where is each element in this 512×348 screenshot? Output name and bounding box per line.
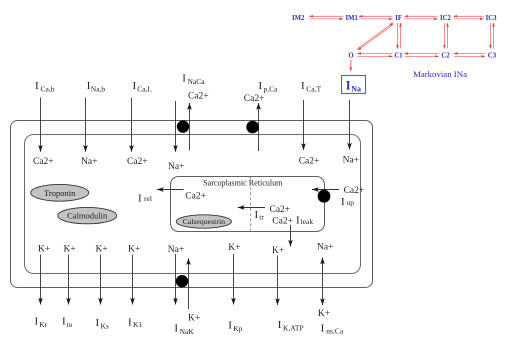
wire IKr arrow <box>40 255 42 305</box>
svg-text:IM1: IM1 <box>346 15 359 22</box>
svg-text:K+: K+ <box>64 245 76 255</box>
label IKr <box>35 316 48 330</box>
wire IK1 arrow <box>132 255 134 305</box>
label IK,ATP <box>278 319 304 333</box>
label Ito <box>62 316 73 330</box>
svg-text:K1: K1 <box>133 320 142 329</box>
svg-text:I: I <box>174 323 178 335</box>
svg-text:K+: K+ <box>38 245 50 255</box>
wire Ins,Ca double arrow <box>322 258 324 281</box>
label Ileak <box>296 214 313 226</box>
exchanger NaCa pump circle <box>177 120 189 132</box>
svg-text:NaCa: NaCa <box>188 77 206 86</box>
label IK1 <box>128 317 142 330</box>
svg-text:K+: K+ <box>272 246 284 256</box>
wire SR divider dashed line <box>250 177 252 231</box>
svg-text:K+: K+ <box>96 245 108 255</box>
label IKs <box>96 317 109 331</box>
wire INa,b arrow <box>85 98 87 152</box>
svg-text:C2: C2 <box>441 52 450 59</box>
svg-text:Na: Na <box>351 85 361 94</box>
svg-text:Calsequestrin: Calsequestrin <box>183 217 226 226</box>
wire O-C1 double arrow <box>358 54 393 57</box>
wire Ileak down arrow <box>290 225 292 247</box>
inner cell membrane <box>25 135 361 274</box>
wire IM1-IF double arrow <box>359 16 393 19</box>
svg-text:I: I <box>301 80 305 92</box>
wire ICa,L arrow <box>131 98 133 152</box>
svg-text:Ca2+: Ca2+ <box>188 92 209 102</box>
pump p,Ca circle <box>246 121 259 134</box>
svg-text:Ca2+: Ca2+ <box>244 94 265 104</box>
svg-text:K+: K+ <box>188 314 200 324</box>
svg-text:Ca,L: Ca,L <box>137 85 152 94</box>
svg-text:Ca2+: Ca2+ <box>33 157 54 167</box>
svg-text:Ca,T: Ca,T <box>306 85 321 94</box>
svg-text:IC2: IC2 <box>440 15 452 22</box>
wire ICa,T arrow <box>303 100 305 150</box>
svg-text:I: I <box>133 80 137 92</box>
label Iup <box>341 196 354 208</box>
wire Ip,Ca up arrow <box>258 103 260 151</box>
label Itr <box>255 209 265 222</box>
svg-text:Ca2+: Ca2+ <box>127 157 148 167</box>
svg-text:K+: K+ <box>128 245 140 255</box>
svg-text:Na+: Na+ <box>81 157 97 167</box>
svg-text:C3: C3 <box>488 52 497 59</box>
svg-text:I: I <box>255 209 259 221</box>
svg-text:I: I <box>341 196 345 208</box>
label ICa,b <box>35 80 55 94</box>
svg-text:ns,Ca: ns,Ca <box>326 327 344 336</box>
outer cell membrane <box>11 121 373 288</box>
label Irel <box>138 193 152 205</box>
svg-text:I: I <box>278 319 282 331</box>
svg-text:I: I <box>228 320 232 332</box>
svg-text:Troponin: Troponin <box>44 188 76 198</box>
wire IM2-IM1 double arrow <box>310 16 344 19</box>
svg-text:I: I <box>138 193 142 205</box>
svg-text:Calmodulin: Calmodulin <box>67 211 108 221</box>
buffer Troponin <box>31 184 89 201</box>
wire INaK down arrow <box>175 254 177 305</box>
wire C2-C3 double arrow <box>454 54 485 57</box>
svg-text:Na+: Na+ <box>168 245 184 255</box>
pump SR Ca circle <box>318 190 331 203</box>
wire Itr arrow <box>238 207 265 209</box>
wire C1-C2 double arrow <box>405 54 439 57</box>
svg-text:Markovian INa: Markovian INa <box>413 69 467 79</box>
label INaCa <box>182 72 205 86</box>
wire IKp arrow <box>233 254 235 305</box>
label ICa,T <box>301 80 322 94</box>
svg-text:I: I <box>128 317 132 329</box>
svg-text:p,Ca: p,Ca <box>264 85 279 94</box>
svg-text:Kr: Kr <box>39 320 47 329</box>
wire Iup arrow into SR <box>312 189 339 191</box>
wire IC2-C2 vertical double arrow <box>445 23 448 49</box>
wire Irel arrow <box>157 189 184 191</box>
svg-text:Ca2+: Ca2+ <box>272 217 293 227</box>
svg-text:C1: C1 <box>394 52 403 59</box>
svg-text:rel: rel <box>144 194 152 203</box>
label IKp <box>228 320 242 334</box>
svg-text:I: I <box>35 316 39 328</box>
wire INaK up arrow <box>188 258 190 309</box>
wire O to INa box <box>350 60 352 71</box>
wire IF-C1 vertical double arrow <box>398 23 401 49</box>
svg-text:K,ATP: K,ATP <box>283 323 304 332</box>
wire IC2-IC3 double arrow <box>454 16 484 19</box>
wire ICa,b arrow <box>40 98 42 152</box>
svg-text:Ca2+: Ca2+ <box>270 205 291 215</box>
wire O-IF diagonal double arrow <box>357 23 393 50</box>
svg-text:Kp: Kp <box>233 324 242 333</box>
svg-text:tr: tr <box>259 213 264 222</box>
label INaK <box>174 323 194 337</box>
label Ip,Ca <box>259 80 279 94</box>
wire INa arrow into cell <box>349 100 351 150</box>
svg-text:I: I <box>321 322 325 334</box>
svg-text:I: I <box>346 78 351 92</box>
wire INaCa up arrow <box>189 103 191 151</box>
svg-text:Ca2+: Ca2+ <box>344 186 365 196</box>
svg-text:I: I <box>62 316 66 328</box>
svg-text:I: I <box>35 80 39 92</box>
wire IC3-C3 vertical double arrow <box>491 23 494 49</box>
pump NaK circle <box>176 275 188 287</box>
svg-text:I: I <box>259 80 263 92</box>
svg-text:IM2: IM2 <box>292 15 305 22</box>
organelle Sarcoplasmic Reticulum box <box>171 177 325 232</box>
label Ins,Ca <box>321 322 344 335</box>
svg-text:Ca2+: Ca2+ <box>299 157 320 167</box>
svg-text:I: I <box>296 214 300 226</box>
svg-text:Ca,b: Ca,b <box>41 85 55 94</box>
svg-text:NaK: NaK <box>180 327 195 336</box>
box U-INa <box>342 76 366 94</box>
svg-text:Ks: Ks <box>101 322 109 331</box>
svg-text:leak: leak <box>301 217 314 226</box>
wire IK,ATP arrow <box>277 256 279 306</box>
svg-text:to: to <box>67 320 73 329</box>
wire Ito arrow <box>68 255 70 305</box>
svg-text:O: O <box>348 52 353 59</box>
svg-text:up: up <box>347 198 355 207</box>
svg-text:I: I <box>182 72 186 84</box>
svg-text:IF: IF <box>395 15 402 22</box>
svg-text:Na+: Na+ <box>317 243 333 253</box>
svg-text:Na+: Na+ <box>168 162 184 172</box>
svg-text:Ca2+: Ca2+ <box>185 192 206 202</box>
svg-text:K+: K+ <box>228 243 240 253</box>
svg-text:IC3: IC3 <box>486 15 498 22</box>
svg-text:Sarcoplasmic Reticulum: Sarcoplasmic Reticulum <box>203 179 283 188</box>
buffer Calmodulin <box>58 207 117 223</box>
svg-text:Na,b: Na,b <box>91 85 106 94</box>
label ICa,L <box>133 80 153 94</box>
wire IF-IC2 double arrow <box>405 16 438 19</box>
label INa,b <box>87 80 106 94</box>
svg-text:K+: K+ <box>318 309 330 319</box>
wire IKs arrow <box>100 255 102 305</box>
wire INaCa down arrow <box>175 101 177 152</box>
svg-text:Na+: Na+ <box>343 156 359 166</box>
svg-text:I: I <box>96 317 100 329</box>
buffer Calsequestrin <box>176 215 231 228</box>
